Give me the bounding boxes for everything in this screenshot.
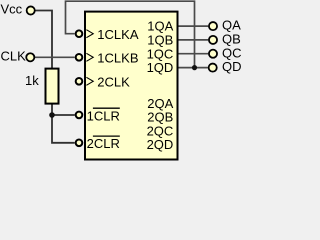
svg-text:1CLKB: 1CLKB: [97, 51, 138, 66]
pin 1CLKB circle: [76, 54, 83, 61]
svg-text:2CLK: 2CLK: [97, 75, 130, 90]
svg-text:Vcc: Vcc: [1, 1, 23, 16]
svg-text:1CLKA: 1CLKA: [97, 27, 139, 42]
pin 2CLK circle: [76, 78, 83, 85]
svg-text:QB: QB: [222, 32, 241, 47]
svg-text:2QD: 2QD: [147, 137, 174, 152]
clock edge triangle 1CLKA: [86, 30, 93, 38]
wire Vcc to resistor top: [36, 11, 53, 69]
clock edge triangle 2CLK: [86, 77, 93, 85]
resistor 1k: [46, 69, 59, 104]
svg-text:1CLR: 1CLR: [87, 108, 120, 123]
wire resistor bottom to node: [51, 105, 53, 116]
svg-text:QA: QA: [222, 18, 241, 33]
wire CLK to 1CLKB: [35, 56, 75, 58]
node junction on 1QD wire: [192, 65, 197, 70]
svg-text:1QA: 1QA: [147, 19, 173, 34]
pin 1CLKA circle: [76, 30, 83, 37]
svg-text:1QC: 1QC: [147, 46, 174, 61]
svg-text:1k: 1k: [25, 73, 39, 88]
terminal CLK: [26, 53, 34, 61]
terminal QD: [209, 64, 217, 72]
svg-text:1QB: 1QB: [147, 33, 173, 48]
pin label 2CLR with overline: [87, 136, 120, 151]
wire 1QA to terminal QA: [179, 25, 209, 27]
svg-text:2CLR: 2CLR: [87, 136, 120, 151]
wire node to 1CLR: [52, 114, 75, 116]
terminal Vcc: [27, 6, 35, 14]
pin 1CLR circle: [76, 112, 83, 119]
svg-text:CLK: CLK: [1, 49, 27, 64]
terminal QB: [209, 36, 217, 44]
wire 1QB to terminal QB: [179, 39, 209, 41]
pin 2CLR circle: [76, 140, 83, 147]
svg-text:1QD: 1QD: [147, 60, 174, 75]
terminal QC: [209, 50, 217, 58]
wire node to 2CLR: [52, 115, 75, 143]
node junction at resistor bottom: [49, 112, 55, 118]
wire 1QD to terminal QD: [179, 67, 208, 69]
wire 1QC to terminal QC: [179, 53, 209, 55]
clock edge triangle 1CLKB: [86, 53, 93, 61]
pin label 1CLR with overline: [87, 108, 120, 123]
terminal QA: [209, 22, 217, 30]
svg-text:QC: QC: [222, 45, 242, 60]
IC U1 74LS393 body: [85, 12, 178, 160]
wire feedback 1QD to 1CLKA: [66, 1, 195, 67]
svg-text:QD: QD: [222, 59, 242, 74]
